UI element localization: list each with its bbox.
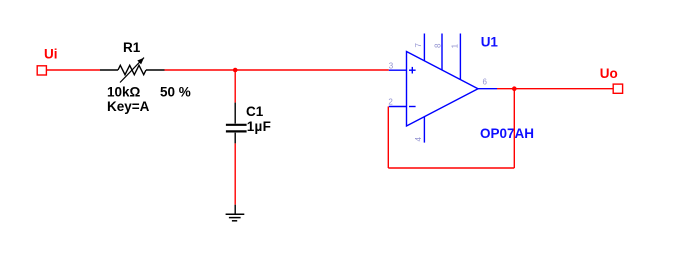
svg-text:R1: R1 xyxy=(123,40,141,55)
wire xyxy=(387,107,389,169)
pin 7 wire xyxy=(423,34,425,61)
svg-text:4: 4 xyxy=(414,137,423,142)
svg-text:Uo: Uo xyxy=(600,66,618,81)
wire xyxy=(388,167,514,169)
junction xyxy=(512,86,517,91)
minus marker pin 2 xyxy=(409,106,416,108)
svg-text:Ui: Ui xyxy=(44,46,58,61)
pin 6 output wire xyxy=(478,88,497,90)
junction xyxy=(233,68,238,73)
svg-text:7: 7 xyxy=(414,43,423,48)
wire xyxy=(234,70,236,103)
pin 2 wire xyxy=(389,106,407,108)
svg-text:1µF: 1µF xyxy=(247,119,271,134)
terminal Uo xyxy=(613,84,622,93)
ground xyxy=(226,205,245,221)
svg-text:Key=A: Key=A xyxy=(107,99,150,114)
resistor R1 xyxy=(100,58,165,83)
op-amp U1 xyxy=(389,34,497,143)
svg-text:2: 2 xyxy=(388,98,393,107)
svg-text:OP07AH: OP07AH xyxy=(480,126,534,141)
plus marker pin 3 xyxy=(409,69,416,71)
svg-text:1: 1 xyxy=(451,43,460,48)
svg-text:8: 8 xyxy=(434,43,443,48)
pin 8 wire xyxy=(441,34,443,71)
svg-text:C1: C1 xyxy=(246,104,264,119)
wire xyxy=(47,69,100,71)
svg-text:3: 3 xyxy=(389,61,394,70)
svg-text:10kΩ: 10kΩ xyxy=(107,85,141,100)
svg-text:U1: U1 xyxy=(481,34,499,49)
pin 1 wire xyxy=(459,34,461,80)
wire xyxy=(234,143,236,204)
wire xyxy=(497,88,613,90)
wire xyxy=(165,69,389,71)
pin 4 wire xyxy=(423,117,425,143)
capacitor C1 xyxy=(226,103,247,144)
wire xyxy=(513,89,515,168)
svg-text:6: 6 xyxy=(483,78,488,87)
pin 3 wire xyxy=(389,69,407,71)
triangle body xyxy=(407,52,479,127)
svg-text:50 %: 50 % xyxy=(160,85,191,100)
terminal Ui xyxy=(37,66,46,75)
